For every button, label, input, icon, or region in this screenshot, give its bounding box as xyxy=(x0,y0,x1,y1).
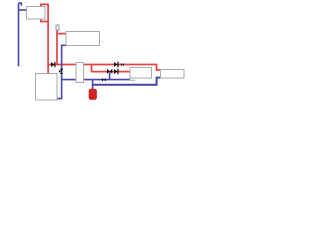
wire: blue return from box2 down to boiler box3 xyxy=(57,45,66,98)
check valve CV2 on red line 2 xyxy=(114,69,117,74)
wire: blue return line 2 (y=84.5) to box4 xyxy=(93,78,161,85)
box5 bottom-left connector notch xyxy=(130,78,135,80)
wire: blue branch into box1 xyxy=(19,9,27,11)
wire: blue main left riser (dead end) xyxy=(18,3,20,66)
valve on blue line 1 xyxy=(102,78,104,82)
3-way valve on blue riser x=61.5 xyxy=(60,69,64,72)
wire: red branch to box2 left edge xyxy=(57,33,66,35)
red indicator square xyxy=(89,89,97,100)
pump / hydraulic separator rectangle xyxy=(76,63,84,83)
wire: red step-down branch and supply line 2 to box5 xyxy=(92,65,131,72)
wire: red bracket bottom return into box1 xyxy=(41,19,48,22)
wire: blue drop to red indicator square xyxy=(92,80,94,90)
wire: red supply line 1 (y=64.5) with end step into box4 xyxy=(48,65,160,71)
wire: blue return line 1 (y=79.5) to box5 corner xyxy=(62,79,130,81)
box2 room radiator middle xyxy=(66,32,100,46)
box3 boiler bottom-left xyxy=(36,74,58,101)
check valve CV3 on red line 1 xyxy=(114,62,117,67)
safety valve component above riser xyxy=(56,25,59,30)
3-way mixing valve on red line 2 xyxy=(107,69,110,74)
wire: blue top hook xyxy=(19,3,22,6)
box1 room radiator top-left xyxy=(27,7,46,20)
box5 middle-right unit xyxy=(130,68,152,79)
wire: blue stub of 3-way mixing valve xyxy=(109,72,111,80)
check valve CV1 on red line 1 xyxy=(51,62,54,67)
wire: red supply bracket around box1 and long drop to boiler xyxy=(41,4,48,73)
box4 far-right unit xyxy=(161,70,185,79)
small valve on red line 1 right xyxy=(121,63,123,66)
wire: red riser from safety component to line 1 xyxy=(56,30,58,65)
